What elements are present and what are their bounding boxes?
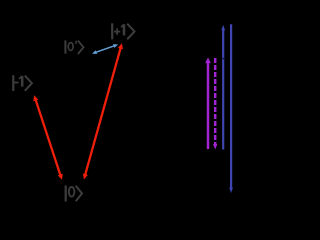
level label |+1> xyxy=(112,23,134,39)
purple solid up arrow xyxy=(205,57,211,149)
dark blue up arrow xyxy=(221,25,225,150)
blue double arrow |0'> to |+1> xyxy=(92,44,118,54)
dark blue down arrow xyxy=(229,24,233,193)
red double arrow |0> to |-1> xyxy=(33,95,63,180)
purple dashed down arrow xyxy=(213,58,217,149)
level label |-1> xyxy=(13,75,32,91)
level label |0> xyxy=(66,186,82,202)
red double arrow |0> to |+1> xyxy=(83,43,123,179)
level label |0'> xyxy=(65,40,83,54)
